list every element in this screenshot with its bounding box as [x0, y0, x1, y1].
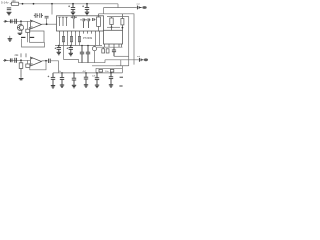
IC U3 main echo chip: [57, 16, 104, 31]
wire top supply bus: [19, 3, 119, 5]
wire J4 drop: [120, 60, 122, 66]
wire lower mid bus: [79, 62, 106, 64]
ground GND-C11: [71, 12, 75, 15]
ground GND-Q1: [18, 33, 23, 34]
resistor R1: [12, 2, 19, 5]
capacitor C3 (bus bypass left): [40, 13, 43, 18]
wire U2 feedback loop: [30, 61, 46, 70]
node supply-D: [72, 3, 74, 5]
transistor/cap T3 to ground: [84, 73, 88, 85]
jack J3 output: [137, 6, 146, 10]
wire bus corner to J3: [104, 4, 137, 14]
capacitor C24 (in U3 right): [93, 18, 96, 21]
wire C routing: [107, 17, 129, 66]
resistor R7: [70, 36, 72, 41]
node bot-c: [85, 72, 87, 74]
wire box3 top: [96, 67, 122, 69]
node bot-d: [96, 72, 98, 74]
svg-text:out: out: [137, 55, 140, 58]
wire R2 to feedback box: [27, 32, 29, 42]
capacitor C12 (bypass above IC): [85, 4, 89, 12]
transistor/cap T4 to ground: [95, 73, 99, 85]
capacitor C2 (bus bypass left): [34, 13, 39, 18]
capacitor C11 (bypass above IC): [71, 4, 75, 12]
wire B routing: [99, 14, 135, 65]
ground GND-T2: [72, 85, 76, 88]
wire C21 to vertical: [114, 55, 129, 57]
capacitor C7: [10, 58, 12, 62]
capacitor C6: [15, 19, 17, 24]
wire row2 branch down: [27, 60, 29, 64]
capacitor C23 (in box3): [110, 69, 113, 72]
resistor R6: [62, 36, 64, 41]
resistor R3: [19, 60, 23, 78]
pin stub U3-b: [62, 17, 64, 26]
wire GND2 stem: [9, 36, 11, 39]
wire vertical link buses: [121, 66, 123, 73]
wire bottom bus: [53, 72, 122, 74]
capacitor C9 (output series): [49, 59, 51, 63]
node mid-a: [58, 45, 60, 47]
jack J4 output: [139, 58, 148, 62]
ground GND1: [7, 12, 12, 15]
node bot-e: [110, 72, 112, 74]
resistor R10: [110, 17, 113, 31]
capacitor C19: [86, 46, 90, 63]
ground GND-T5: [109, 85, 113, 88]
wire tick A row2: [20, 53, 22, 57]
node input1: [20, 20, 22, 22]
wire mid link: [64, 60, 79, 63]
wire lower mid rise: [104, 60, 106, 63]
capacitor C21: [112, 47, 116, 56]
pin stub U3-c: [65, 17, 67, 26]
transistor Q1: [17, 21, 23, 33]
ground GND-C16: [57, 52, 61, 55]
node supply-C: [51, 3, 53, 5]
label C11 plus: [68, 5, 70, 7]
wire U1 output: [42, 23, 57, 25]
ground GND-T4: [95, 85, 99, 88]
capacitor C16 + ground: [57, 46, 61, 53]
input jack J2: [3, 59, 8, 61]
node U1-out: [46, 23, 48, 25]
node mid-c: [81, 45, 83, 47]
svg-text:100: 100: [12, 0, 17, 3]
node supply-A: [22, 3, 24, 5]
wire J4 feed: [105, 59, 139, 61]
resistor R13 dash: [21, 36, 25, 38]
ground GND-T3: [84, 85, 88, 88]
op-amp U2: [31, 57, 42, 66]
ground GND-C12: [85, 12, 89, 15]
op-amp U1: [31, 20, 42, 29]
capacitor C1: [7, 8, 11, 10]
capacitor C8: [15, 58, 17, 63]
IC U4: [104, 30, 123, 44]
capacitor C5 (input series): [10, 19, 12, 23]
input jack J1: [4, 20, 8, 22]
wire cap to output node: [46, 18, 48, 24]
svg-text:PT2399: PT2399: [83, 36, 93, 40]
label C10 plus: [48, 76, 50, 78]
label C12 plus: [82, 5, 84, 7]
resistor network below U3: [60, 34, 100, 46]
capacitor C15: [86, 18, 91, 28]
label C16 plus: [55, 47, 57, 49]
ground GND-C17: [69, 53, 73, 56]
resistor R12: [106, 49, 109, 53]
capacitor C14: [80, 18, 85, 28]
node mid-d: [87, 45, 89, 47]
wire bottom-right bus: [92, 65, 129, 67]
wire R10 row: [107, 26, 120, 28]
node bot-b: [73, 72, 75, 74]
transistor/cap T5 to ground: [109, 73, 113, 85]
wire U2 output: [42, 60, 48, 62]
pin stub U3-a: [58, 17, 60, 26]
wire row1 branch down: [27, 21, 29, 29]
wire U2 out to bottom bus: [50, 61, 58, 73]
node bot-a: [61, 72, 63, 74]
resistor R14 dash: [30, 36, 34, 38]
ground GND2: [8, 39, 13, 42]
capacitor C20 electrolytic circle: [92, 47, 96, 51]
capacitor C17 + ground: [69, 46, 73, 54]
node supply-B: [33, 3, 35, 5]
U3 pin ticks bottom: [60, 31, 100, 34]
capacitor C10 to ground: [51, 73, 55, 85]
resistor R4: [26, 64, 30, 67]
wire tick B row2: [25, 53, 27, 57]
transistor/cap T2 to ground: [72, 73, 76, 85]
node mid-b: [70, 45, 72, 47]
wire mid drop: [63, 46, 65, 60]
wire box3 left: [95, 68, 97, 73]
node U2-out: [45, 60, 47, 62]
stub mark right A: [120, 76, 123, 78]
wire supply lead: [10, 3, 12, 5]
U4 pin ticks: [105, 44, 122, 47]
feedback network box U1: [30, 31, 45, 42]
wire input row2: [8, 59, 30, 61]
resistor R8: [78, 36, 80, 41]
svg-text:5-14v: 5-14v: [1, 1, 9, 5]
ground GND-C10: [51, 86, 55, 89]
wire supply drop to opamp: [51, 4, 53, 15]
transistor/cap T1 to ground: [60, 73, 64, 85]
node R9: [122, 27, 124, 29]
resistor R9 above U4: [121, 14, 124, 31]
stub mark right B: [119, 85, 122, 87]
wire bus below U4: [97, 46, 122, 48]
capacitor C4 (near opamp): [45, 16, 49, 18]
label C17 plus: [67, 47, 69, 49]
capacitor C22 (in box3): [99, 69, 102, 72]
ground GND-R3: [19, 79, 24, 80]
wire input row1: [8, 20, 30, 22]
node supply-E: [86, 3, 88, 5]
capacitor C13 (inside U3 frame): [71, 16, 77, 29]
resistor R11: [102, 47, 105, 53]
wire bias rail: [22, 39, 45, 47]
ground GND-T1: [60, 85, 64, 88]
node R10: [111, 26, 113, 28]
capacitor C18: [80, 46, 84, 63]
svg-text:out: out: [137, 3, 140, 6]
resistor R5 (right of U3): [97, 14, 101, 31]
wire mid bus: [55, 45, 102, 47]
node input2: [20, 59, 22, 61]
resistor R2: [26, 29, 30, 32]
wire feedback tap: [29, 27, 32, 31]
